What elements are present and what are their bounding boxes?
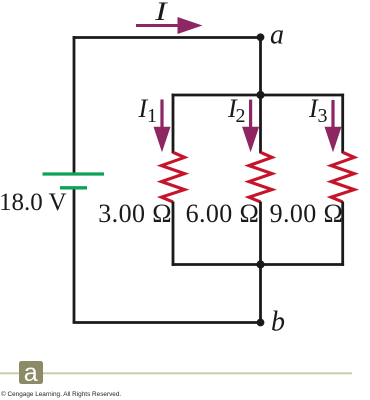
current label I2 (227, 94, 246, 127)
battery 18.0 V : short (negative) plate (60, 186, 87, 189)
wire: bottom rail from battery to node b (73, 321, 261, 324)
svg-text:3.00 Ω: 3.00 Ω (98, 199, 172, 228)
wire: branch 3 upper segment (341, 94, 344, 154)
wire: branch 2 upper segment (259, 94, 262, 154)
svg-text:I: I (154, 0, 169, 26)
resistor R3 zigzag (331, 152, 354, 202)
current arrow I3 (325, 100, 342, 152)
wire: top rail from battery to node a (73, 36, 261, 39)
caption divider line (0, 372, 352, 374)
svg-text:© Cengage Learning. All Rights: © Cengage Learning. All Rights Reserved. (1, 390, 121, 398)
node b junction dot (257, 319, 265, 327)
wire: branch 3 lower segment (341, 202, 344, 266)
wire: branch 1 lower segment (172, 202, 175, 266)
current label I1 (138, 94, 158, 127)
junction dot on bottom rail (256, 260, 264, 268)
resistor R2 zigzag (249, 152, 272, 202)
svg-text:a: a (24, 359, 38, 387)
wire: branch 1 upper segment (172, 94, 175, 154)
svg-text:9.00 Ω: 9.00 Ω (270, 199, 344, 228)
node a junction dot (257, 33, 265, 41)
svg-text:2: 2 (236, 105, 246, 127)
resistor R1 zigzag (161, 152, 184, 202)
caption part label box a (19, 359, 43, 387)
current label I3 (308, 94, 328, 127)
junction dot on top rail (256, 91, 264, 99)
wire: branch 2 lower segment (259, 202, 262, 266)
svg-text:a: a (270, 20, 284, 51)
current arrow I1 (154, 100, 171, 153)
current arrow I2 (242, 100, 259, 153)
wire: node a down to parallel-top rail (259, 38, 262, 96)
svg-text:1: 1 (147, 105, 157, 127)
wire: bottom rail junction down to node b (259, 265, 262, 323)
svg-text:18.0 V: 18.0 V (0, 189, 67, 216)
wire: parallel-bottom rail (172, 263, 345, 266)
wire: left vertical, battery to bottom rail (73, 190, 76, 323)
wire: parallel-top rail (172, 94, 345, 97)
svg-text:b: b (271, 307, 285, 338)
svg-text:3: 3 (318, 105, 328, 127)
svg-text:6.00 Ω: 6.00 Ω (186, 199, 260, 228)
battery 18.0 V : long (positive) plate (43, 172, 105, 175)
current arrow I on top wire (136, 17, 203, 34)
wire: left vertical, top wire to battery (73, 36, 76, 173)
